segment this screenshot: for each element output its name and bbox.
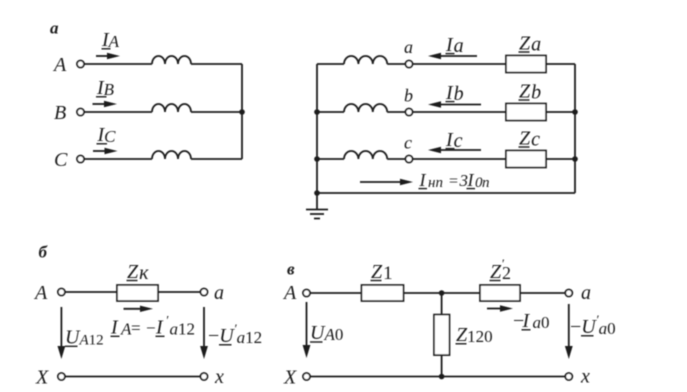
- label B: [54, 102, 66, 124]
- svg-text:UA0: UA0: [310, 322, 343, 344]
- arrow -U'a12 down: [200, 307, 208, 359]
- label node a2: [214, 282, 224, 304]
- svg-text:a: a: [404, 37, 413, 57]
- svg-text:A: A: [33, 282, 48, 304]
- inductor row c: [344, 151, 387, 159]
- terminal A2: [58, 289, 65, 296]
- wire: [310, 292, 362, 294]
- node a: [406, 61, 413, 68]
- label IA = -I'a12: [110, 313, 195, 339]
- svg-text:X: X: [35, 367, 49, 389]
- ground: [306, 193, 328, 219]
- svg-text:а: а: [50, 19, 59, 38]
- node b: [406, 109, 413, 116]
- svg-text:−U′a12: −U′a12: [208, 321, 262, 347]
- arrow Ib: [428, 101, 481, 107]
- svg-text:Iнп=3I0n: Iнп=3I0n: [419, 170, 490, 191]
- svg-text:IA: IA: [101, 29, 120, 51]
- svg-text:б: б: [39, 243, 49, 262]
- svg-text:IC: IC: [97, 124, 117, 146]
- svg-text:x: x: [214, 366, 224, 388]
- label Ib: [445, 82, 464, 105]
- label -Ia0: [513, 310, 550, 332]
- section label b: [39, 243, 49, 262]
- arrow IB: [93, 101, 118, 107]
- junction: [314, 190, 320, 196]
- label UA0: [310, 322, 343, 344]
- arrow UA0 down: [303, 302, 311, 358]
- label A3: [282, 282, 297, 304]
- row a: wire: [317, 63, 344, 65]
- wire: [546, 63, 575, 65]
- label IB: [96, 77, 115, 99]
- svg-text:a: a: [581, 282, 591, 304]
- svg-text:−Ia0: −Ia0: [513, 310, 550, 332]
- arrow IA: [96, 53, 120, 59]
- wire: [404, 292, 481, 294]
- wire: [387, 111, 405, 113]
- label node c: [404, 133, 412, 153]
- junction: [572, 109, 578, 115]
- terminal X: [58, 373, 65, 380]
- junction: [314, 109, 320, 115]
- label A: [52, 54, 67, 76]
- impedance Zb: [506, 104, 546, 121]
- label Za: [519, 33, 541, 56]
- row b: wire: [317, 111, 344, 113]
- wire right bus of left circuit: [241, 64, 243, 159]
- label Ia: [445, 34, 464, 57]
- wire: [413, 158, 507, 160]
- wire to Z120: [441, 293, 443, 315]
- label node a: [404, 37, 413, 57]
- label IC: [97, 124, 117, 146]
- label node a3: [581, 282, 591, 304]
- wire: [546, 111, 575, 113]
- arrow Inp: [360, 179, 413, 185]
- wire: [387, 158, 405, 160]
- wire: [413, 111, 507, 113]
- wire: [191, 63, 242, 65]
- svg-text:IA=−I′a12: IA=−I′a12: [110, 313, 195, 339]
- label x: [214, 366, 224, 388]
- terminal x3: [565, 373, 572, 380]
- node a2: [201, 289, 208, 296]
- svg-text:UA12: UA12: [65, 327, 104, 349]
- inductor row a: [344, 56, 387, 64]
- label Z1: [371, 261, 393, 284]
- label X3: [283, 367, 297, 389]
- junction: [239, 109, 245, 115]
- wire: [191, 111, 242, 113]
- svg-text:B: B: [54, 102, 66, 124]
- svg-text:в: в: [287, 260, 295, 279]
- svg-text:a: a: [214, 282, 224, 304]
- wire: [84, 63, 152, 65]
- arrow -U'a0 down: [565, 304, 573, 359]
- impedance Za: [506, 56, 546, 73]
- svg-text:−U′a0: −U′a0: [570, 312, 616, 338]
- inductor LC: [152, 151, 191, 159]
- wire: [84, 111, 152, 113]
- wire: [191, 158, 242, 160]
- wire left bus: [316, 64, 318, 193]
- wire: [84, 158, 152, 160]
- wire: [158, 291, 201, 293]
- wire from Z120: [441, 355, 443, 376]
- arrow Ic: [428, 147, 481, 153]
- label IA: [101, 29, 120, 51]
- svg-text:A: A: [52, 54, 67, 76]
- svg-text:X: X: [283, 367, 297, 389]
- inductor LA: [152, 56, 191, 64]
- wire right bus: [574, 64, 576, 193]
- label C: [54, 149, 68, 171]
- label X: [35, 367, 49, 389]
- wire: [413, 63, 507, 65]
- label UA12: [65, 327, 104, 349]
- svg-text:IB: IB: [96, 77, 115, 99]
- label Zb: [519, 81, 541, 104]
- impedance Zc: [506, 151, 546, 168]
- wire: [65, 376, 201, 378]
- terminal A3: [303, 290, 310, 297]
- junction: [439, 374, 445, 380]
- arrow Ia: [428, 53, 477, 59]
- label node b: [404, 86, 413, 106]
- arrow UA12 down: [58, 307, 66, 359]
- wire neutral bottom: [317, 192, 575, 194]
- inductor row b: [344, 104, 387, 112]
- wire: [520, 292, 565, 294]
- impedance Z1: [362, 285, 404, 301]
- wire: [65, 291, 117, 293]
- row c: wire: [317, 158, 344, 160]
- label Zk: [127, 261, 149, 284]
- terminal B: [77, 109, 84, 116]
- impedance Z120: [434, 315, 450, 356]
- wire: [546, 158, 575, 160]
- label A2: [33, 282, 48, 304]
- section label a: [50, 19, 59, 38]
- junction: [439, 290, 445, 296]
- inductor LB: [152, 104, 191, 112]
- terminal C: [77, 156, 84, 163]
- arrow under Z'2: [487, 305, 513, 311]
- section label v: [287, 260, 295, 279]
- label Z'2: [490, 256, 511, 283]
- label -U'a0: [570, 312, 616, 338]
- impedance Z'2: [480, 285, 520, 301]
- label Z120: [456, 324, 493, 346]
- svg-text:x: x: [580, 366, 590, 388]
- terminal A: [77, 61, 84, 68]
- node c: [406, 156, 413, 163]
- svg-text:b: b: [404, 86, 413, 106]
- svg-text:C: C: [54, 149, 68, 171]
- svg-text:Z′2: Z′2: [490, 256, 511, 283]
- terminal x: [201, 373, 208, 380]
- svg-text:Z120: Z120: [456, 324, 493, 346]
- label Zc: [519, 128, 540, 151]
- node a3: [565, 290, 572, 297]
- junction: [314, 156, 320, 162]
- label Inp = 3I0n: [419, 170, 490, 191]
- label x3: [580, 366, 590, 388]
- arrow IC: [93, 148, 118, 154]
- arrow under Zk: [124, 306, 154, 312]
- svg-text:A: A: [282, 282, 297, 304]
- label Ic: [445, 129, 463, 152]
- svg-text:c: c: [404, 133, 412, 153]
- junction: [572, 156, 578, 162]
- wire: [387, 63, 405, 65]
- impedance Zk: [117, 285, 158, 301]
- terminal X3: [303, 373, 310, 380]
- wire: [310, 376, 565, 378]
- label -U'a12: [208, 321, 262, 347]
